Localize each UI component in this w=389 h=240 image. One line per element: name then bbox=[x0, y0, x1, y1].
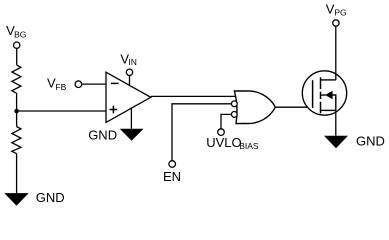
ground (op-amp) bbox=[120, 129, 144, 141]
wire junction to op-amp + input bbox=[17, 110, 106, 112]
svg-text:GND: GND bbox=[88, 128, 117, 143]
or-gate U2 bbox=[234, 91, 275, 124]
svg-text:IN: IN bbox=[128, 57, 137, 67]
resistor R1 bbox=[12, 65, 21, 93]
wire UVLO net to OR gate input 3 bubble bbox=[221, 114, 231, 129]
svg-text:GND: GND bbox=[356, 134, 385, 149]
transistor Q1 (open-drain NMOS) bbox=[302, 71, 346, 115]
source connection bbox=[321, 109, 336, 111]
input bubble (UVLO, active low) bbox=[231, 112, 237, 118]
label V_PG bbox=[326, 2, 347, 18]
label GND (left) bbox=[36, 190, 65, 205]
wire source to ground bbox=[335, 110, 337, 135]
wire comparator output to OR gate input 1 bbox=[151, 95, 236, 97]
op-amp plus sign bbox=[110, 106, 118, 114]
terminal V_FB bbox=[75, 81, 82, 88]
wire EN net to OR gate input 2 bubble bbox=[172, 104, 231, 161]
drain connection bbox=[321, 79, 336, 81]
label UVLO_BIAS bbox=[206, 135, 259, 151]
wire V_IN stub to op-amp top edge bbox=[129, 76, 131, 86]
terminal V_PG bbox=[333, 20, 339, 26]
wire op-amp ground stub bbox=[130, 107, 132, 128]
gate bar bbox=[312, 80, 314, 108]
terminal UVLO_BIAS bbox=[218, 129, 225, 136]
label V_IN bbox=[120, 51, 136, 67]
svg-text:EN: EN bbox=[163, 169, 181, 184]
wire OR gate output to MOSFET gate bbox=[275, 106, 312, 108]
body diode arrow bbox=[321, 94, 326, 96]
input bubble (EN, active low) bbox=[231, 101, 237, 107]
terminal V_IN bbox=[126, 69, 132, 75]
label V_FB bbox=[47, 76, 67, 93]
label GND (op-amp) bbox=[88, 128, 117, 143]
svg-text:PG: PG bbox=[334, 8, 346, 18]
resistor R2 bbox=[12, 127, 21, 154]
op-amp minus sign bbox=[111, 82, 119, 84]
svg-text:FB: FB bbox=[55, 82, 66, 92]
wire R2 to ground bbox=[16, 154, 18, 194]
wire V_FB to op-amp - input bbox=[82, 83, 106, 85]
svg-text:BIAS: BIAS bbox=[239, 141, 259, 151]
ground (right) bbox=[324, 136, 348, 149]
label GND (right) bbox=[356, 134, 385, 149]
body to source link bbox=[332, 95, 336, 110]
label EN bbox=[163, 169, 181, 184]
channel bar segments bbox=[320, 77, 322, 113]
svg-text:UVLO: UVLO bbox=[206, 135, 241, 150]
svg-text:BG: BG bbox=[14, 30, 26, 40]
label V_BG bbox=[6, 23, 26, 40]
terminal V_BG bbox=[14, 42, 20, 48]
ground (left) bbox=[4, 193, 28, 206]
svg-text:GND: GND bbox=[36, 190, 65, 205]
op-amp U1 bbox=[106, 72, 151, 122]
node junction (feedback tap) bbox=[14, 109, 19, 114]
wire drain to V_PG bbox=[335, 26, 337, 80]
wire R1 to junction to R2 bbox=[16, 93, 18, 126]
terminal EN bbox=[169, 161, 176, 168]
wire V_BG to R1 bbox=[16, 48, 18, 65]
